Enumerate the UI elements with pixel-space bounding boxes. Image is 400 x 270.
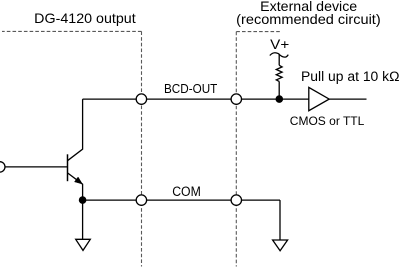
dashed boundary of external device block xyxy=(236,32,281,267)
wire: resistor to BCD-OUT node xyxy=(278,81,280,99)
buffer U1 (CMOS/TTL gate) xyxy=(309,87,329,110)
junction dot: pull-up node on BCD-OUT xyxy=(276,95,284,103)
wire: COM to ground (right, external) xyxy=(279,200,281,240)
emitter lead xyxy=(68,173,83,200)
wire: V+ to resistor xyxy=(278,54,280,66)
dashed boundary of DG-4120 output block xyxy=(2,31,142,266)
V+ power squiggle symbol xyxy=(270,53,288,57)
svg-text:COM: COM xyxy=(172,184,201,199)
svg-text:CMOS or TTL: CMOS or TTL xyxy=(290,114,365,128)
junction dot: emitter/COM node xyxy=(79,196,87,204)
svg-text:(recommended circuit): (recommended circuit) xyxy=(236,11,381,27)
wire: base lead from input terminal xyxy=(3,166,68,168)
base bar xyxy=(67,154,69,181)
ground (right) xyxy=(273,240,288,251)
collector lead xyxy=(68,99,83,161)
wire: buffer output xyxy=(329,98,367,100)
terminal circle: base input (clipped at left edge) xyxy=(0,162,5,172)
terminal circle: BCD-OUT at DG-4120 boundary xyxy=(136,94,146,104)
svg-text:BCD-OUT: BCD-OUT xyxy=(164,81,217,96)
svg-text:Pull up at 10 kΩ: Pull up at 10 kΩ xyxy=(301,69,400,84)
svg-text:DG-4120 output: DG-4120 output xyxy=(34,10,136,26)
transistor Q1 (NPN, open collector) xyxy=(68,99,83,200)
svg-text:V+: V+ xyxy=(270,37,289,52)
terminal circle: COM at external device boundary xyxy=(231,195,241,205)
wire: COM line xyxy=(83,199,280,201)
terminal circle: COM at DG-4120 boundary xyxy=(136,195,146,205)
emitter arrowhead xyxy=(75,177,83,184)
wire: BCD-OUT line (collector to buffer input) xyxy=(83,98,309,100)
terminal circle: BCD-OUT at external device boundary xyxy=(231,94,241,104)
wire: emitter to ground xyxy=(82,200,84,239)
resistor R1 (pull-up 10 kΩ) xyxy=(276,65,282,81)
ground (left) xyxy=(76,239,91,250)
